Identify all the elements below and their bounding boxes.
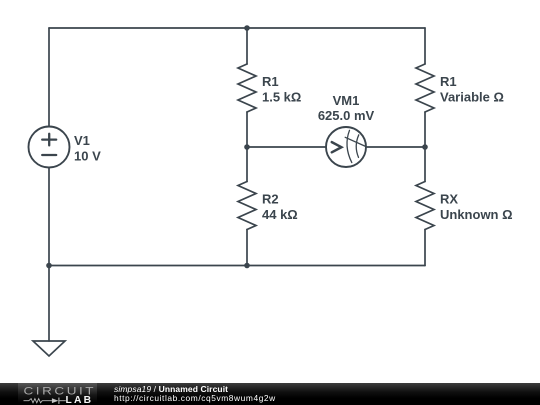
- resistor RX (Unknown): [416, 182, 434, 230]
- node bottom left: [46, 263, 52, 269]
- svg-text:VM1: VM1: [333, 93, 360, 108]
- svg-text:R2: R2: [262, 192, 279, 207]
- resistor R1 (Variable): [416, 64, 434, 112]
- voltage source V1: [29, 127, 70, 168]
- wire left rail lower: [48, 168, 50, 266]
- resistor R2 (44k): [238, 182, 256, 230]
- svg-text:10 V: 10 V: [74, 148, 101, 163]
- voltmeter VM1: [326, 127, 366, 167]
- wire R2 to bottom: [246, 230, 248, 266]
- svg-text:RX: RX: [440, 192, 458, 207]
- svg-text:Variable Ω: Variable Ω: [440, 89, 504, 104]
- svg-text:625.0 mV: 625.0 mV: [318, 108, 375, 123]
- svg-text:R1: R1: [262, 74, 279, 89]
- logo symbol resistor+diode: [23, 396, 66, 405]
- node middle left: [244, 144, 250, 150]
- wire right middle: [424, 112, 426, 182]
- wire middle to R2: [246, 147, 248, 182]
- logo word CIRCUIT: [24, 385, 119, 396]
- node top middle: [244, 25, 250, 31]
- wire voltmeter to right node: [366, 146, 425, 148]
- svg-text:Unknown Ω: Unknown Ω: [440, 207, 513, 222]
- logo word LAB: [66, 396, 94, 405]
- footer bar: [0, 383, 540, 405]
- footer title: [114, 385, 228, 394]
- wire left rail upper: [48, 28, 50, 127]
- svg-text:R1: R1: [440, 74, 457, 89]
- wire bottom rail: [49, 265, 425, 267]
- wire middle R1 to node: [246, 112, 248, 147]
- node bottom middle: [244, 263, 250, 269]
- wire RX to bottom: [424, 230, 426, 266]
- svg-text:V1: V1: [74, 133, 90, 148]
- wire node to voltmeter: [247, 146, 326, 148]
- svg-text:1.5 kΩ: 1.5 kΩ: [262, 89, 301, 104]
- svg-text:44 kΩ: 44 kΩ: [262, 207, 298, 222]
- ground: [33, 266, 65, 357]
- wire top rail: [49, 27, 425, 29]
- wire right rail upper: [424, 28, 426, 64]
- node middle right: [422, 144, 428, 150]
- footer url: [114, 394, 276, 402]
- logo panel: [18, 383, 97, 405]
- resistor R1 (1.5k): [238, 64, 256, 112]
- wire middle upper: [246, 28, 248, 64]
